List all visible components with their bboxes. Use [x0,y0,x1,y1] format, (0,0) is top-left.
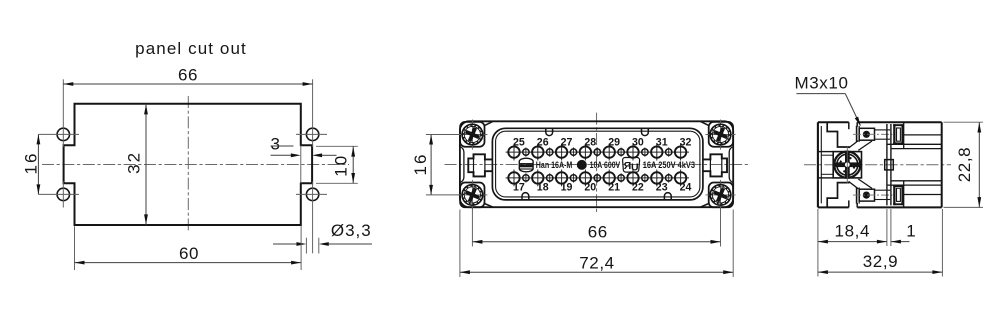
flange face lines (1mm step) [886,124,888,205]
contact 24 [672,177,689,179]
contact 20 [577,177,594,179]
auxiliary contact top 6 [640,151,649,153]
dimension 72,4 [460,271,733,273]
svg-text:R: R [623,160,631,172]
dimension 22,8 [944,121,984,123]
fixing screw bottom-left [457,180,487,210]
contact 21 [601,177,618,179]
fixing screw top-right [706,120,736,150]
auxiliary contact top 1 [521,151,530,153]
M3 screw slot bottom [848,200,850,207]
panel cutout outline [64,104,313,225]
fixing screw top-left [457,120,487,150]
right guide latch [703,154,727,176]
panel cutout horizontal centerline [42,164,349,166]
body side inset right [729,147,733,183]
contact 25 [506,151,523,153]
svg-text:M3x10: M3x10 [794,74,848,93]
flange step top-left [827,122,849,147]
svg-text:20: 20 [584,181,596,193]
svg-text:66: 66 [588,223,608,242]
svg-text:10A 600V: 10A 600V [590,160,621,170]
svg-text:panel cut out: panel cut out [135,39,247,58]
leader M3x10 [797,93,846,95]
svg-text:16: 16 [411,153,430,176]
contact 29 [601,151,618,153]
svg-text:21: 21 [608,181,620,193]
svg-text:30: 30 [632,137,644,149]
contact 31 [648,151,665,153]
svg-text:16A 250V 4kV3: 16A 250V 4kV3 [643,160,695,170]
side view left edge [817,122,819,207]
connector vertical centerline [596,113,598,213]
extension lines 66 middle [471,208,473,247]
extension lines bottom dims [817,209,819,277]
screw pod top-left [460,122,484,147]
left guide latch [468,154,492,176]
mounting hole top-right [306,128,318,140]
dimension 1 [891,241,910,243]
dimension 66 (top) [63,83,312,85]
hole center marks left holes [38,133,79,135]
pocket diagonals bottom [849,181,859,188]
svg-text:25: 25 [513,137,525,149]
auxiliary contact top 3 [569,151,578,153]
contact 19 [553,177,570,179]
svg-text:26: 26 [537,137,549,149]
coding notch top 2 [642,129,649,136]
boss connection lines [818,151,833,153]
hole center marks right holes [296,133,327,135]
svg-text:28: 28 [584,137,596,149]
contact 23 [648,177,665,179]
hole vertical marks / extension to 66 dim [62,79,64,147]
M3 screw slot top [848,122,850,129]
auxiliary contact top 7 [664,151,673,153]
side view outline top [818,121,849,123]
pocket diagonals top [849,141,859,148]
svg-text:24: 24 [680,181,692,193]
svg-text:32,9: 32,9 [863,252,899,271]
mounting hole bottom-right [306,188,318,200]
leader under 3 [271,145,294,147]
auxiliary contact bottom 7 [664,177,673,179]
contact chamber section top [893,124,895,144]
fixing screw bottom-right [706,180,736,210]
auxiliary contact top 5 [616,151,625,153]
dimension 16 (left) [37,134,39,194]
svg-text:16: 16 [22,152,41,175]
coding barrel [519,158,533,172]
flange step bottom-left [827,183,849,208]
dimension 18,4 [818,241,887,243]
mounting hole top-left [57,128,69,140]
svg-text:1: 1 [906,221,916,240]
extension lines 72,4 [459,210,461,278]
screw pod bottom-left [460,183,484,208]
contact 27 [553,151,570,153]
svg-text:32: 32 [680,137,692,149]
auxiliary contact bottom 3 [569,177,578,179]
svg-text:U: U [631,162,639,174]
mounting hole bottom-left [57,188,69,200]
screw pod top-right [709,122,733,147]
M3 screw bottom (side) [856,188,858,204]
screw pod bottom-right [709,183,733,208]
pod gussets [485,121,493,125]
side view outline bottom [818,206,849,208]
svg-text:22,8: 22,8 [955,147,974,183]
svg-text:27: 27 [561,137,573,149]
side view inner wall left [820,126,822,203]
svg-text:29: 29 [608,137,620,149]
auxiliary contact top 2 [545,151,554,153]
dimension 10 (right notch height) [316,145,358,147]
extension edge through notch [300,145,302,183]
locking element circle [834,152,860,178]
dimension 16 (middle view left) [426,134,459,136]
svg-text:32: 32 [124,151,143,174]
coding notch bottom 1 [522,193,529,200]
dimension 66 (middle) [472,241,720,243]
svg-text:31: 31 [656,137,668,149]
panel cutout vertical centerline [187,96,189,233]
center contact bump [885,160,894,170]
dimension 32,9 [818,271,943,273]
contact 30 [625,151,642,153]
auxiliary contact bottom 1 [521,177,530,179]
UL logo [623,158,640,174]
side view right edge [941,122,943,207]
dimension 32 (vertical inside) [145,104,147,225]
locking element cross [845,152,850,178]
extension right edge down [300,226,302,270]
svg-text:22: 22 [632,181,644,193]
auxiliary contact bottom 2 [545,177,554,179]
locking element vertical centerline [846,147,848,184]
contact 32 [672,151,689,153]
svg-text:19: 19 [561,181,573,193]
svg-text:18: 18 [537,181,549,193]
connector body outline [460,121,733,207]
coding notch bottom 2 [664,193,671,200]
svg-text:18,4: 18,4 [835,221,871,240]
svg-text:60: 60 [179,244,199,263]
locking element square [833,152,861,178]
svg-text:17: 17 [513,181,525,193]
insert outline inner [496,131,700,197]
dimension 60 (bottom) [74,226,76,270]
svg-text:3: 3 [270,135,280,154]
auxiliary contact bottom 5 [616,177,625,179]
contact chamber section bottom [893,185,895,205]
auxiliary contact bottom 6 [640,177,649,179]
coding notch top 1 [546,129,553,136]
svg-text:72,4: 72,4 [579,254,615,273]
svg-text:23: 23 [656,181,668,193]
CSA logo [577,160,586,169]
svg-text:Han 16A-M: Han 16A-M [536,160,573,170]
connector horizontal centerline [445,164,749,166]
contact 22 [625,177,642,179]
insert outline outer [492,128,703,200]
insert face lines right section [903,122,905,148]
contact 28 [577,151,594,153]
M3 screw top (side) [856,126,858,142]
contact 26 [529,151,546,153]
svg-text:10: 10 [331,154,350,177]
auxiliary contact top 4 [593,151,602,153]
body side inset left [460,147,464,183]
contact 18 [529,177,546,179]
svg-text:66: 66 [178,66,198,85]
svg-text:Ø3,3: Ø3,3 [331,221,372,240]
auxiliary contact bottom 4 [593,177,602,179]
side view horizontal centerline [804,164,951,166]
contact 17 [506,177,523,179]
